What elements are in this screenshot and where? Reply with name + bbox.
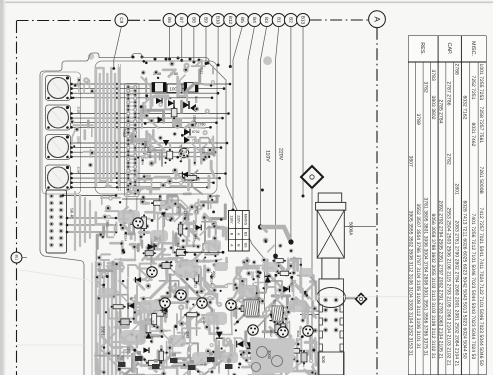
transistor T7 xyxy=(278,327,288,337)
diode pair 2780 2781 xyxy=(182,101,196,112)
svg-text:B5: B5 xyxy=(243,243,247,247)
faint scan creases xyxy=(20,270,95,281)
capacitor 2786 xyxy=(184,83,198,93)
svg-text:3003: 3003 xyxy=(273,299,277,306)
svg-text:B4: B4 xyxy=(252,17,257,23)
node B10 xyxy=(212,14,225,27)
wire from C9 xyxy=(114,27,122,68)
node B13 xyxy=(297,14,310,27)
wire pot2.1 xyxy=(71,113,229,115)
pad 2780 xyxy=(191,121,206,127)
svg-text:7512: 7512 xyxy=(194,281,198,288)
svg-text:8028 7413 7211 6026 6025 6023: 8028 7413 7211 6026 6025 6023 5042 5043 … xyxy=(461,201,467,359)
transformer 5000A body xyxy=(318,193,342,202)
svg-text:2104: 2104 xyxy=(192,115,196,122)
transistor T9 xyxy=(248,325,258,335)
svg-text:7252 7251: 7252 7251 xyxy=(470,76,476,100)
wire from B4 xyxy=(248,26,255,215)
pad SK-R pin 351 xyxy=(49,215,54,220)
svg-text:2553 2504 2503 2506 2106 2115: 2553 2504 2503 2506 2106 2115 2793 2105 … xyxy=(446,208,452,366)
svg-text:3102: 3102 xyxy=(106,220,110,227)
svg-text:B6: B6 xyxy=(167,17,172,23)
svg-text:3905 3555 3502 3508 3112 3106: 3905 3555 3502 3508 3112 3106 3104 3303 … xyxy=(408,211,414,357)
wire lower horizontal xyxy=(122,198,160,200)
pad SK-R pin 451 xyxy=(49,222,54,227)
wire pot4.4 xyxy=(71,186,208,188)
capacitor 2783 gray block xyxy=(172,118,182,128)
wire links to transformer xyxy=(300,311,319,315)
pad SK-R pin 651 xyxy=(49,236,54,241)
svg-text:3807: 3807 xyxy=(408,156,414,167)
svg-text:2524: 2524 xyxy=(124,234,128,241)
potentiometer R102 xyxy=(46,105,71,130)
wire connector link xyxy=(67,224,116,226)
node B (diamond) xyxy=(301,166,323,188)
node B7 xyxy=(175,14,188,27)
wire pot2.4 xyxy=(71,126,211,128)
wire from B5 xyxy=(233,26,242,210)
pad SK-R pin 561 xyxy=(59,229,64,234)
svg-text:B13: B13 xyxy=(301,16,306,25)
svg-text:8031 7462: 8031 7462 xyxy=(470,123,476,147)
svg-text:8032 7162: 8032 7162 xyxy=(461,96,467,120)
svg-text:2083 2781 2790 2802 2784 2080: 2083 2781 2790 2802 2784 2080 2001 2081 … xyxy=(453,221,459,367)
svg-text:3003: 3003 xyxy=(116,355,120,362)
svg-text:B1: B1 xyxy=(276,17,281,23)
svg-text:7258 7257 7561: 7258 7257 7561 xyxy=(478,107,484,144)
pad SK-R pin 361 xyxy=(59,215,64,220)
svg-text:B8: B8 xyxy=(191,17,196,23)
node B12 xyxy=(224,14,237,27)
node B11 xyxy=(11,252,22,263)
pad SK-R pin 061 xyxy=(59,194,64,199)
wire from B2 xyxy=(290,26,292,242)
frame fold line left xyxy=(16,21,18,375)
wire from B7 xyxy=(181,26,183,60)
svg-text:3512: 3512 xyxy=(185,331,189,338)
diode 7251 xyxy=(184,137,200,144)
transformer bottom box xyxy=(318,352,344,375)
svg-text:500: 500 xyxy=(321,356,326,364)
svg-text:3522: 3522 xyxy=(201,243,205,250)
svg-text:3003: 3003 xyxy=(257,271,261,278)
pad SK-R pin 251 xyxy=(49,208,54,213)
wire pot3.3 xyxy=(71,151,215,153)
node B8 xyxy=(187,14,200,27)
wire mid horizontal xyxy=(185,251,223,253)
svg-text:7504: 7504 xyxy=(191,240,195,247)
copper region left-mid xyxy=(96,196,137,260)
wire from B10 xyxy=(217,26,219,65)
svg-text:SK-R: SK-R xyxy=(70,208,75,218)
wire pot2.2 xyxy=(71,117,223,119)
pad SK-R pin 261 xyxy=(59,208,64,213)
svg-text:B3: B3 xyxy=(264,17,269,23)
svg-text:3003: 3003 xyxy=(150,336,154,343)
transformer side notches xyxy=(319,305,344,351)
copper trace mains link 2 xyxy=(276,256,284,269)
scan edge shading xyxy=(0,0,4,375)
copper pour patches xyxy=(98,200,313,364)
wire from B9 xyxy=(205,26,207,63)
svg-text:2104: 2104 xyxy=(141,158,145,165)
svg-text:110V: 110V xyxy=(265,150,271,162)
svg-text:2502: 2502 xyxy=(250,271,254,278)
svg-text:220V: 220V xyxy=(278,148,284,161)
wire connector link xyxy=(67,231,116,233)
pad SK-R pin 751 xyxy=(49,243,54,248)
pads on board top edge xyxy=(132,56,210,65)
wire transformer to fold xyxy=(345,226,377,228)
wire pot1.2 xyxy=(71,88,224,90)
diode 6105 xyxy=(168,100,174,106)
svg-text:3104: 3104 xyxy=(77,167,81,174)
copper region pot column xyxy=(70,77,95,167)
svg-text:3781 3805 3801 3006 3004 3784: 3781 3805 3801 3006 3004 3784 2808 3001 … xyxy=(423,198,429,357)
wire from B6 xyxy=(169,26,171,59)
wire pot1.1 xyxy=(71,83,230,85)
module shield outline xyxy=(95,61,217,194)
node B5 xyxy=(236,14,249,27)
svg-text:7505: 7505 xyxy=(289,278,293,285)
wire from B12 xyxy=(229,26,231,66)
svg-text:2787 2786: 2787 2786 xyxy=(446,82,452,106)
svg-text:3789: 3789 xyxy=(415,114,421,125)
svg-text:2092 2792 2794 2505 2351 2797: 2092 2792 2794 2505 2351 2797 2002 2791 … xyxy=(438,201,444,360)
wire ellipse-diamond xyxy=(346,297,356,299)
svg-text:3512: 3512 xyxy=(200,67,204,74)
capacitor 2788 xyxy=(152,83,166,93)
copper trace mains link 1 xyxy=(261,227,292,242)
svg-text:2782: 2782 xyxy=(446,154,452,165)
svg-text:3003: 3003 xyxy=(194,96,198,103)
svg-text:3003: 3003 xyxy=(165,311,169,318)
transformer X-box xyxy=(317,210,344,258)
potentiometer R104 xyxy=(46,165,71,190)
via disc xyxy=(263,56,272,65)
svg-text:1001 7255 7253: 1001 7255 7253 xyxy=(478,64,484,101)
wire pot1.4 xyxy=(71,97,212,99)
transistor T5 xyxy=(197,298,207,308)
wire from B xyxy=(311,188,313,360)
wire pot4.3 xyxy=(71,182,214,184)
wire from B13 xyxy=(302,26,304,196)
transistor T8 xyxy=(303,326,313,336)
svg-text:CAP.: CAP. xyxy=(446,43,452,55)
copper region dense mid xyxy=(137,193,227,263)
node B6 xyxy=(163,14,176,27)
transistor T2 xyxy=(147,267,157,277)
node B4 xyxy=(248,14,261,27)
coil 5004 hatched xyxy=(272,306,284,321)
pad SK-R pin 051 xyxy=(49,194,54,199)
transformer mount ellipse xyxy=(319,279,344,375)
svg-text:B12: B12 xyxy=(228,16,233,25)
svg-text:B7: B7 xyxy=(179,17,184,23)
svg-text:7502: 7502 xyxy=(122,128,127,138)
svg-text:7412 7257 7021 5041 7411 7024: 7412 7257 7021 5041 7411 7024 7122 7101 … xyxy=(478,208,484,366)
svg-text:MAINS: MAINS xyxy=(243,214,247,226)
svg-text:B9: B9 xyxy=(203,17,208,23)
coil 5003 hatched xyxy=(244,300,260,316)
svg-text:3003: 3003 xyxy=(148,151,152,158)
diode 6104 xyxy=(156,97,172,105)
svg-text:B5: B5 xyxy=(240,17,245,23)
wire connector link xyxy=(67,217,116,219)
svg-text:3102: 3102 xyxy=(126,347,130,354)
svg-text:8702: 8702 xyxy=(192,130,200,134)
svg-text:B2: B2 xyxy=(288,17,293,23)
pad SK-R pin 661 xyxy=(59,236,64,241)
svg-text:110V: 110V xyxy=(230,215,234,224)
wire pot3.1 xyxy=(71,142,227,144)
svg-text:3102: 3102 xyxy=(77,107,81,114)
node B1 xyxy=(272,14,285,27)
wire pot3.4 xyxy=(71,156,209,158)
svg-text:2790: 2790 xyxy=(178,145,182,152)
wire from B8 xyxy=(193,26,195,62)
svg-text:5000A: 5000A xyxy=(349,222,354,236)
wire from B3 xyxy=(261,26,267,227)
node B2 xyxy=(284,14,297,27)
transistor T1 xyxy=(133,218,143,228)
wire pot4.2 xyxy=(71,177,220,179)
wire pot2.3 xyxy=(71,122,217,124)
legend table MAINS/220V/110V xyxy=(229,211,250,252)
svg-text:3003: 3003 xyxy=(175,206,179,213)
heatsink blob bottom xyxy=(249,337,294,375)
copper region dense lower-left xyxy=(94,260,233,375)
diode 8702 xyxy=(184,129,200,136)
frame fold line right (A) xyxy=(376,28,378,375)
IC 1001 xyxy=(167,84,182,93)
wire pot1.3 xyxy=(71,92,218,94)
svg-text:2785 2784: 2785 2784 xyxy=(438,100,444,124)
svg-text:2790: 2790 xyxy=(151,320,155,327)
svg-text:220V: 220V xyxy=(236,215,240,224)
transformer pad grid xyxy=(323,298,338,333)
copper traces: lower-left bundle xyxy=(96,262,120,375)
pad SK-R pin 151 xyxy=(49,201,54,206)
connector SK-R xyxy=(46,190,67,253)
svg-text:3783: 3783 xyxy=(430,70,436,81)
copper region right-mid sparse xyxy=(261,189,293,254)
copper region dense lower-right xyxy=(232,257,318,375)
pad SK-R pin 551 xyxy=(49,229,54,234)
node A (fold reference) xyxy=(369,11,386,28)
svg-text:3552 3507 3504 3786 3787 3104: 3552 3507 3504 3786 3787 3104 3105 3108 … xyxy=(415,204,421,350)
svg-text:3102: 3102 xyxy=(296,330,300,337)
diode 6113 (down) xyxy=(163,140,169,146)
pad SK-R pin 461 xyxy=(59,222,64,227)
svg-text:A: A xyxy=(373,17,382,23)
transistor T6 xyxy=(226,300,236,310)
node B9 xyxy=(199,14,212,27)
wire connector link xyxy=(63,195,116,197)
svg-text:2506: 2506 xyxy=(144,141,148,148)
faint crease line xyxy=(300,296,408,298)
svg-text:RES.: RES. xyxy=(419,42,425,55)
svg-text:7401 7256 7212 7101 5046 7023: 7401 7256 7212 7101 5046 7023 5044 5043 … xyxy=(470,214,476,360)
svg-text:C9: C9 xyxy=(119,17,124,23)
svg-text:2502: 2502 xyxy=(269,330,273,337)
svg-text:3512: 3512 xyxy=(176,242,180,249)
transistor T4 xyxy=(176,290,186,300)
pad SK-R pin 161 xyxy=(59,201,64,206)
copper region centre-mid xyxy=(127,130,214,194)
connector/IC 7502 pin rows xyxy=(125,84,140,197)
svg-text:B11: B11 xyxy=(15,255,19,261)
svg-text:8056 3058 3788 3602 3055 3103: 8056 3058 3788 3602 3055 3103 3113 3103 … xyxy=(430,214,436,359)
node C9 xyxy=(115,14,128,27)
pot column outline xyxy=(42,72,81,194)
svg-text:2104: 2104 xyxy=(184,211,188,218)
transistor 7501 xyxy=(179,148,189,158)
node B3 xyxy=(260,14,273,27)
bottom component clusters xyxy=(118,351,233,370)
svg-text:2780: 2780 xyxy=(198,123,206,127)
wire pot4.1 xyxy=(71,173,226,175)
wire pot3.2 xyxy=(71,147,221,149)
svg-text:3803 3802: 3803 3802 xyxy=(430,96,436,120)
svg-text:7261 5000B: 7261 5000B xyxy=(478,167,484,194)
svg-text:2801: 2801 xyxy=(453,184,459,195)
node diamond (transformer) xyxy=(356,294,367,305)
svg-text:3000: 3000 xyxy=(267,350,272,360)
svg-text:B10: B10 xyxy=(216,16,221,25)
frame fold line top xyxy=(17,20,115,22)
potentiometer R101 xyxy=(46,76,71,101)
transistor T3 xyxy=(160,298,170,308)
svg-text:3782: 3782 xyxy=(423,82,429,93)
svg-text:2104: 2104 xyxy=(210,272,214,279)
copper traces: vertical fingers left-centre xyxy=(96,68,119,186)
PCB inner edge line xyxy=(91,263,93,375)
svg-text:2788: 2788 xyxy=(453,64,459,75)
svg-text:3522: 3522 xyxy=(195,206,199,213)
svg-text:3103: 3103 xyxy=(77,136,81,143)
wire from B1 xyxy=(276,26,279,256)
potentiometer R103 xyxy=(46,135,71,160)
svg-text:3102: 3102 xyxy=(202,147,206,154)
pad SK-R pin 761 xyxy=(59,243,64,248)
diode 6106 xyxy=(158,117,164,124)
copper region centre-top xyxy=(140,60,215,129)
svg-text:MISC.: MISC. xyxy=(470,41,476,56)
PCB board outline xyxy=(40,53,265,375)
svg-text:B3: B3 xyxy=(243,232,247,236)
svg-text:7512: 7512 xyxy=(194,232,198,239)
